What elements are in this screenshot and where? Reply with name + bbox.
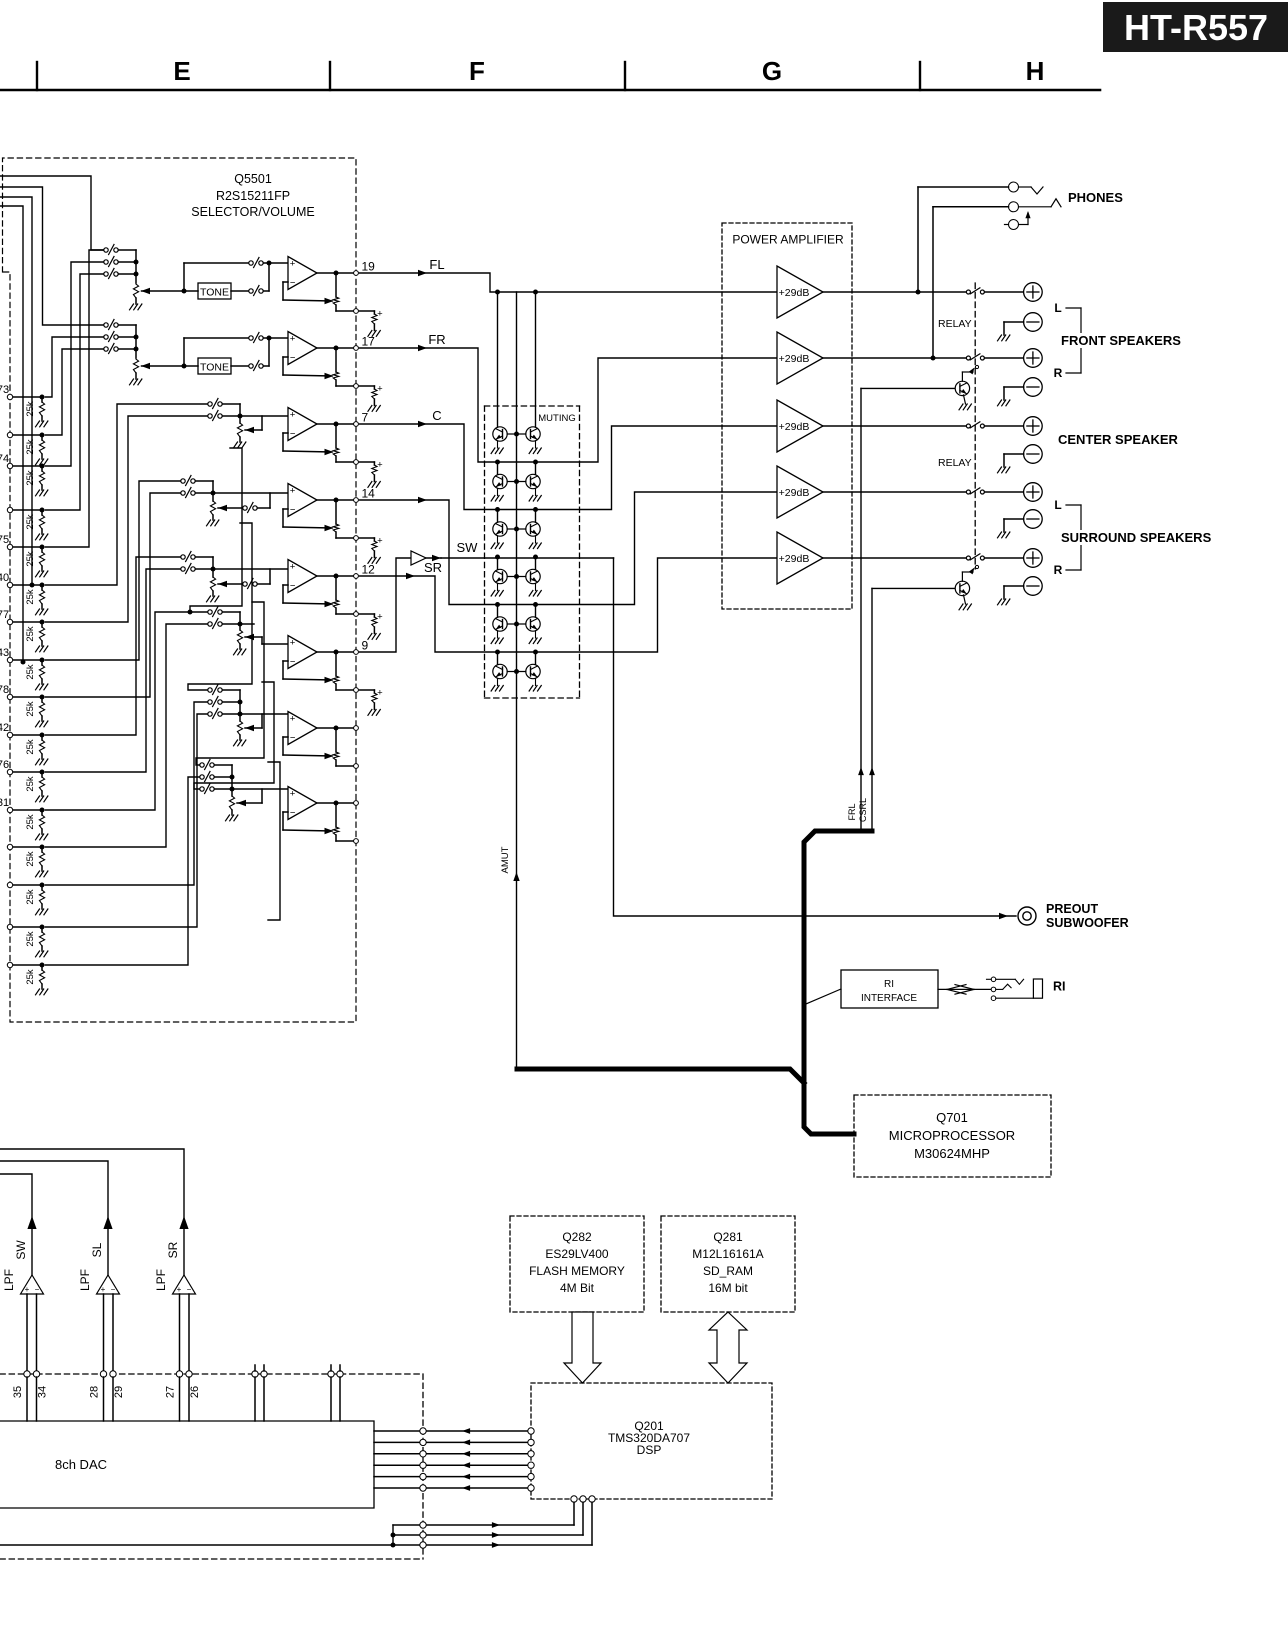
- svg-text:+: +: [290, 410, 296, 421]
- svg-text:M12L16161A: M12L16161A: [692, 1247, 763, 1261]
- svg-text:25k: 25k: [25, 776, 36, 792]
- svg-text:INTERFACE: INTERFACE: [861, 993, 917, 1004]
- svg-text:75: 75: [0, 534, 9, 546]
- svg-text:26: 26: [189, 1386, 201, 1398]
- svg-text:25k: 25k: [25, 701, 36, 717]
- svg-text:25k: 25k: [25, 514, 36, 530]
- svg-text:SL: SL: [90, 1242, 104, 1257]
- svg-text:+: +: [377, 384, 383, 395]
- svg-text:9: 9: [362, 639, 369, 653]
- svg-text:+: +: [290, 259, 296, 270]
- svg-text:25k: 25k: [25, 851, 36, 867]
- svg-text:+: +: [290, 714, 296, 725]
- svg-text:G: G: [762, 56, 782, 86]
- svg-text:Q701: Q701: [936, 1110, 968, 1125]
- svg-text:AMUT: AMUT: [500, 846, 511, 873]
- svg-text:+: +: [377, 612, 383, 623]
- svg-text:FR: FR: [428, 332, 445, 347]
- svg-text:H: H: [1026, 56, 1045, 86]
- svg-text:19: 19: [362, 260, 376, 274]
- svg-text:78: 78: [0, 684, 9, 696]
- svg-text:+: +: [377, 536, 383, 547]
- svg-text:CSRL: CSRL: [858, 798, 868, 822]
- svg-text:+29dB: +29dB: [779, 287, 810, 299]
- svg-text:SD_RAM: SD_RAM: [703, 1264, 753, 1278]
- svg-text:R2S15211FP: R2S15211FP: [216, 189, 290, 203]
- svg-text:40: 40: [0, 572, 9, 584]
- svg-text:34: 34: [37, 1386, 49, 1398]
- svg-text:−: −: [290, 733, 296, 744]
- svg-text:73: 73: [0, 384, 9, 396]
- svg-text:25k: 25k: [25, 969, 36, 985]
- svg-text:TONE: TONE: [200, 362, 229, 374]
- svg-text:76: 76: [0, 759, 9, 771]
- svg-text:C: C: [432, 408, 441, 423]
- svg-text:Q282: Q282: [562, 1230, 592, 1244]
- svg-text:+29dB: +29dB: [779, 487, 810, 499]
- svg-text:SELECTOR/VOLUME: SELECTOR/VOLUME: [191, 205, 314, 219]
- svg-text:SURROUND SPEAKERS: SURROUND SPEAKERS: [1061, 530, 1212, 545]
- svg-text:LPF: LPF: [78, 1269, 92, 1291]
- svg-text:+29dB: +29dB: [779, 421, 810, 433]
- svg-text:M30624MHP: M30624MHP: [914, 1146, 990, 1161]
- svg-text:+29dB: +29dB: [779, 553, 810, 565]
- svg-text:TONE: TONE: [200, 287, 229, 299]
- svg-text:8ch DAC: 8ch DAC: [55, 1457, 107, 1472]
- svg-text:CENTER SPEAKER: CENTER SPEAKER: [1058, 432, 1179, 447]
- svg-text:RELAY: RELAY: [938, 457, 972, 469]
- svg-text:14: 14: [362, 487, 376, 501]
- svg-text:7: 7: [362, 411, 369, 425]
- svg-text:SR: SR: [424, 560, 442, 575]
- svg-text:−: −: [290, 505, 296, 516]
- svg-text:12: 12: [362, 563, 376, 577]
- svg-text:Q281: Q281: [713, 1230, 743, 1244]
- svg-text:MICROPROCESSOR: MICROPROCESSOR: [889, 1128, 1015, 1143]
- svg-text:−: −: [290, 581, 296, 592]
- svg-text:+: +: [290, 486, 296, 497]
- svg-text:28: 28: [89, 1386, 101, 1398]
- svg-text:PREOUT: PREOUT: [1046, 902, 1098, 916]
- svg-text:L: L: [1054, 301, 1061, 315]
- svg-text:25k: 25k: [25, 889, 36, 905]
- svg-text:29: 29: [113, 1386, 125, 1398]
- svg-text:RELAY: RELAY: [938, 318, 972, 330]
- svg-text:L: L: [1054, 498, 1061, 512]
- svg-text:+: +: [101, 1285, 106, 1294]
- svg-text:F: F: [469, 56, 485, 86]
- svg-text:LPF: LPF: [2, 1269, 16, 1291]
- svg-text:+: +: [377, 688, 383, 699]
- svg-text:LPF: LPF: [154, 1269, 168, 1291]
- svg-text:POWER AMPLIFIER: POWER AMPLIFIER: [732, 233, 844, 247]
- svg-text:+29dB: +29dB: [779, 353, 810, 365]
- svg-text:SW: SW: [457, 540, 479, 555]
- svg-text:17: 17: [362, 335, 376, 349]
- svg-text:25k: 25k: [25, 664, 36, 680]
- svg-text:25k: 25k: [25, 589, 36, 605]
- svg-text:+: +: [377, 309, 383, 320]
- svg-text:74: 74: [0, 453, 9, 465]
- svg-text:25k: 25k: [25, 626, 36, 642]
- svg-text:SUBWOOFER: SUBWOOFER: [1046, 916, 1129, 930]
- svg-text:−: −: [290, 808, 296, 819]
- svg-text:R: R: [1054, 366, 1063, 380]
- svg-text:−: −: [111, 1285, 116, 1294]
- svg-text:77: 77: [0, 609, 9, 621]
- svg-text:+: +: [177, 1285, 182, 1294]
- svg-text:MUTING: MUTING: [538, 413, 575, 424]
- svg-text:+: +: [25, 1285, 30, 1294]
- svg-text:42: 42: [0, 722, 9, 734]
- svg-text:25k: 25k: [25, 551, 36, 567]
- svg-text:−: −: [290, 353, 296, 364]
- svg-text:+: +: [290, 562, 296, 573]
- svg-text:−: −: [187, 1285, 192, 1294]
- svg-text:27: 27: [165, 1386, 177, 1398]
- svg-text:ES29LV400: ES29LV400: [545, 1247, 608, 1261]
- svg-text:25k: 25k: [25, 739, 36, 755]
- svg-text:FRL: FRL: [847, 803, 857, 820]
- svg-text:SW: SW: [14, 1240, 28, 1260]
- svg-text:SR: SR: [166, 1241, 180, 1258]
- svg-text:R: R: [1054, 563, 1063, 577]
- svg-text:+: +: [290, 789, 296, 800]
- svg-text:25k: 25k: [25, 401, 36, 417]
- svg-text:16M bit: 16M bit: [708, 1281, 748, 1295]
- svg-text:4M Bit: 4M Bit: [560, 1281, 595, 1295]
- svg-text:HT-R557: HT-R557: [1124, 7, 1268, 48]
- svg-text:RI: RI: [884, 979, 894, 990]
- svg-text:DSP: DSP: [637, 1443, 662, 1457]
- svg-text:FRONT SPEAKERS: FRONT SPEAKERS: [1061, 333, 1181, 348]
- svg-text:43: 43: [0, 647, 9, 659]
- svg-text:25k: 25k: [25, 439, 36, 455]
- svg-text:31: 31: [0, 797, 9, 809]
- svg-text:25k: 25k: [25, 470, 36, 486]
- svg-text:FLASH MEMORY: FLASH MEMORY: [529, 1264, 625, 1278]
- svg-text:+: +: [290, 638, 296, 649]
- svg-text:25k: 25k: [25, 931, 36, 947]
- svg-text:E: E: [173, 56, 190, 86]
- svg-text:−: −: [35, 1285, 40, 1294]
- svg-text:35: 35: [12, 1386, 24, 1398]
- svg-text:−: −: [290, 278, 296, 289]
- svg-text:−: −: [290, 657, 296, 668]
- svg-text:+: +: [290, 334, 296, 345]
- svg-text:+: +: [377, 460, 383, 471]
- svg-text:Q5501: Q5501: [234, 172, 272, 186]
- svg-text:PHONES: PHONES: [1068, 190, 1123, 205]
- svg-text:FL: FL: [429, 257, 444, 272]
- svg-text:25k: 25k: [25, 814, 36, 830]
- svg-text:−: −: [290, 429, 296, 440]
- svg-text:RI: RI: [1053, 980, 1066, 994]
